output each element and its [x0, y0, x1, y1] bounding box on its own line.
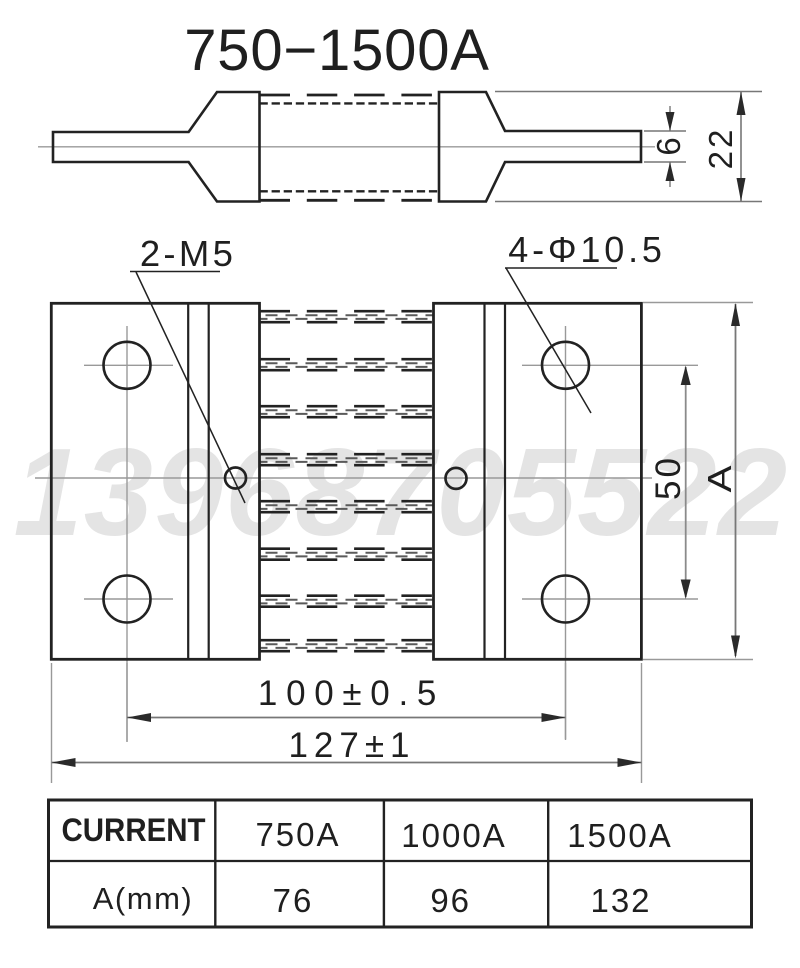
svg-text:4-Φ10.5: 4-Φ10.5: [508, 229, 665, 270]
svg-text:A(mm): A(mm): [93, 881, 193, 916]
svg-text:22: 22: [702, 127, 739, 170]
svg-text:2-M5: 2-M5: [140, 233, 236, 274]
svg-text:1500A: 1500A: [567, 817, 672, 854]
svg-text:CURRENT: CURRENT: [62, 812, 206, 848]
svg-text:750−1500A: 750−1500A: [184, 18, 490, 83]
svg-text:132: 132: [590, 882, 651, 919]
svg-text:50: 50: [649, 455, 688, 500]
svg-text:96: 96: [430, 882, 471, 919]
svg-text:100±0.5: 100±0.5: [258, 674, 445, 713]
svg-text:A: A: [701, 466, 738, 493]
svg-text:127±1: 127±1: [288, 726, 415, 765]
svg-text:6: 6: [650, 137, 687, 155]
svg-text:750A: 750A: [255, 816, 340, 853]
svg-text:76: 76: [273, 882, 314, 919]
svg-text:1000A: 1000A: [401, 817, 506, 854]
